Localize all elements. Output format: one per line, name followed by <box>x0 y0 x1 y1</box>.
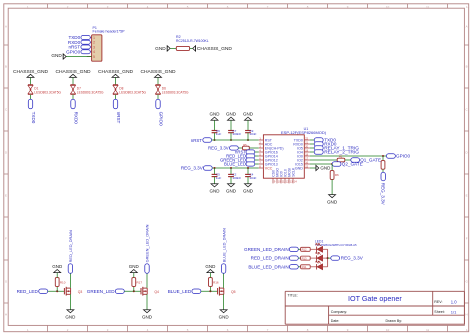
U1 bottom pin 12 IO10 <box>284 169 290 183</box>
wire CHASSIS_GND to D1 <box>30 78 32 85</box>
wire CHASSIS_GND to D6 <box>157 78 159 85</box>
svg-text:TJ-S3528UG2W8TLCCYRGB-A5: TJ-S3528UG2W8TLCCYRGB-A5 <box>315 243 357 247</box>
svg-text:ESP-12F(ESP8266MOD): ESP-12F(ESP8266MOD) <box>281 130 327 135</box>
TVS diode D8 LESD803.3CAT5G <box>113 85 147 95</box>
wire GND to C6 <box>214 120 216 130</box>
svg-text:H: H <box>5 313 7 317</box>
LED1 common anode bus <box>327 249 329 266</box>
junction at R16 <box>209 290 211 292</box>
junction on nRST line at C9 <box>247 139 249 141</box>
wire GREEN_LED_DRAIN to pin box <box>298 248 300 250</box>
svg-text:REG_3.3V: REG_3.3V <box>181 166 204 171</box>
svg-text:10nF: 10nF <box>249 176 256 180</box>
svg-text:GND: GND <box>243 111 254 116</box>
ground GND below C5 <box>210 184 221 194</box>
net flag RELAY_2_TRIG <box>314 150 359 156</box>
U1 left pin 8 VCC <box>259 165 273 170</box>
wire R2 to CHASSIS_GND <box>190 47 193 49</box>
U1 right pin 17 IO2 <box>297 157 310 162</box>
ground GND at P1 <box>51 53 66 59</box>
net flag RED_LED at U1 <box>226 154 255 159</box>
resistor R17 <box>132 278 142 287</box>
svg-text:GREEN_LED_DRAIN: GREEN_LED_DRAIN <box>145 224 150 262</box>
net flag GREEN_LED at U1 <box>220 158 255 163</box>
TVS diode D7 LESD803.3CAT5G <box>70 85 104 95</box>
LED1 pin box R12 <box>301 247 311 251</box>
net flag REG_3.3V at VCC <box>181 166 212 171</box>
U1 right pin 16 IO15 <box>295 161 310 166</box>
ground GND above C9 <box>243 111 254 120</box>
wire R16 to GND <box>209 273 211 278</box>
net flag GPIO0 <box>386 154 410 159</box>
wire C7 to nRST line <box>230 133 232 140</box>
svg-text:RC251JLR-7W100KL: RC251JLR-7W100KL <box>176 39 209 43</box>
svg-text:TITLE:: TITLE: <box>288 293 298 297</box>
wire pin box to LED element <box>310 266 316 268</box>
svg-text:TXD0: TXD0 <box>31 112 36 124</box>
net flag Q2_GATE <box>332 162 362 167</box>
net flag GREEN_LED_DRAIN at LED1 <box>244 247 298 252</box>
LED1 pin box R11 <box>301 265 311 269</box>
net flag GPIO0 at P1 <box>66 49 90 54</box>
resistor R2 RC251JLR-7W100KL <box>176 35 209 50</box>
U1 left pin 6 GPIO12 <box>259 157 278 162</box>
svg-text:GND: GND <box>205 264 216 269</box>
wire C9 to nRST line <box>247 133 249 140</box>
resistor R5 <box>243 143 250 150</box>
ground GND below Q3 <box>65 310 76 320</box>
U1 left pin 3 EN(CH-PD) <box>259 145 284 150</box>
wire GND to C9 <box>247 120 249 130</box>
svg-text:R11: R11 <box>302 265 307 269</box>
svg-text:IOT Gate opener: IOT Gate opener <box>348 294 402 303</box>
ground GND below R6 <box>327 195 338 205</box>
svg-text:10: 10 <box>386 328 390 332</box>
LED element GREEN_LED_DRAIN <box>316 244 328 253</box>
svg-text:A: A <box>466 25 468 29</box>
svg-text:BLUE_LED_DRAIN: BLUE_LED_DRAIN <box>221 228 226 262</box>
ground GND above R10 <box>52 264 63 273</box>
wire R1 to Q1_GATE <box>345 159 351 161</box>
U1 right pin 19 IO4 <box>297 149 310 154</box>
junction on nRST line at C7 <box>230 139 232 141</box>
transistor Q5 NMOS <box>218 287 236 296</box>
svg-text:RXD0: RXD0 <box>74 112 79 125</box>
svg-text:GND: GND <box>51 53 62 58</box>
svg-text:1uF: 1uF <box>216 176 221 180</box>
wire junction to R17 <box>133 286 135 291</box>
U1 bottom pin 11 IO9 <box>280 171 286 183</box>
svg-text:R1: R1 <box>339 155 343 159</box>
svg-text:GND: GND <box>65 315 76 320</box>
svg-text:GND: GND <box>129 264 140 269</box>
svg-text:A: A <box>5 25 7 29</box>
wire RED_LED to Q3 gate <box>48 290 65 292</box>
junction at Q2_GATE branch <box>331 163 333 165</box>
ground GND left of R2 <box>155 46 170 52</box>
wire Q5 drain up <box>223 273 225 288</box>
U1 left pin 5 GPIO14 <box>259 153 278 158</box>
wire VCC line to C5 <box>214 168 216 174</box>
svg-text:R16: R16 <box>213 280 219 284</box>
svg-text:RELAY_2_TRIG: RELAY_2_TRIG <box>324 150 359 156</box>
U1 left pin 4 GPIO16 <box>259 149 278 154</box>
net flag TXD0 <box>314 138 336 143</box>
svg-text:GREEN_LED: GREEN_LED <box>87 289 116 294</box>
net flag GREEN_LED_DRAIN <box>145 224 150 273</box>
net flag RXD0 below D7 <box>71 99 79 124</box>
svg-text:GND: GND <box>219 315 230 320</box>
svg-text:1.0: 1.0 <box>451 299 457 304</box>
svg-text:12: 12 <box>466 5 470 9</box>
svg-text:B: B <box>466 65 468 69</box>
wire Q3 drain up <box>69 273 71 288</box>
svg-text:GND: GND <box>226 189 237 194</box>
ground GND above C6 <box>210 111 221 120</box>
svg-text:RED_LED_DRAIN: RED_LED_DRAIN <box>251 256 289 261</box>
net flag BLUE_LED_DRAIN at LED1 <box>248 264 298 269</box>
wire U1 GND pin to ground <box>310 167 316 169</box>
wire R17 to GND <box>133 273 135 278</box>
net flag RED_LED_DRAIN at LED1 <box>251 256 299 261</box>
svg-text:GND: GND <box>226 111 237 116</box>
net flag RED_LED_DRAIN <box>68 230 73 273</box>
U1 right pin 18 IO0 <box>297 153 310 158</box>
svg-text:GND: GND <box>52 264 63 269</box>
svg-text:GND: GND <box>210 189 221 194</box>
wire U1 to RELAY_2_TRIG <box>310 151 314 153</box>
wire REG_3.3V to U1 VCC <box>212 167 259 169</box>
svg-text:Drawn By:: Drawn By: <box>386 319 403 323</box>
svg-text:D1: D1 <box>34 86 38 90</box>
svg-text:GPIO0: GPIO0 <box>396 154 410 159</box>
U1 left pin 1 RST <box>259 137 273 142</box>
net flag Q1_GATE <box>351 158 381 163</box>
junction at LED1 anode <box>327 257 329 259</box>
svg-text:C: C <box>466 108 468 112</box>
LED element BLUE_LED_DRAIN <box>316 261 328 270</box>
resistor R1 <box>337 155 345 162</box>
svg-text:REG_3.3V: REG_3.3V <box>208 146 229 151</box>
junction on nRST line at C6 <box>213 139 215 141</box>
net flag RELAY_1_TRIG <box>314 146 359 152</box>
svg-text:BLUE_LED: BLUE_LED <box>168 289 192 294</box>
net flag TXD0 below D1 <box>28 99 36 123</box>
connector P1 Female header 1*5P <box>92 26 125 61</box>
U1 bottom pin 14 SCLK <box>292 167 298 184</box>
wire D1 to net flag <box>30 95 32 100</box>
U1 bottom pin 9 CS0 <box>272 170 276 184</box>
wire junction to R3 <box>382 156 384 161</box>
wire R3 to REG_3.3V <box>382 169 384 172</box>
junction at GPIO0 branch <box>382 155 384 157</box>
wire VCC line to C2 <box>230 168 232 174</box>
wire RED_LED_DRAIN to pin box <box>298 257 300 259</box>
capacitor C5 1uF <box>212 173 222 180</box>
svg-text:R12: R12 <box>302 248 307 252</box>
op-amp U1 ESP-12F(ESP8266MOD) module body <box>263 127 326 178</box>
capacitor C2 100nF <box>228 173 241 180</box>
P1 pin 2 <box>87 41 95 45</box>
net flag REG_3.3V vertical <box>381 172 386 205</box>
svg-text:GREEN_LED_DRAIN: GREEN_LED_DRAIN <box>244 247 289 252</box>
svg-text:R10: R10 <box>60 280 66 284</box>
chassis ground CHASSIS_GND above D1 <box>13 69 49 77</box>
wire pin box to LED element <box>310 248 316 250</box>
net flag GREEN_LED <box>87 289 125 294</box>
svg-text:C: C <box>5 108 7 112</box>
wire Q4 drain up <box>146 273 148 288</box>
wire U1 to TXD0 <box>310 139 314 141</box>
svg-text:11: 11 <box>426 328 429 332</box>
capacitor C6 1uF <box>212 129 222 136</box>
wire D6 to net flag <box>157 95 159 100</box>
wire U1 IO0 to GPIO0 <box>310 155 387 157</box>
svg-text:H: H <box>466 313 468 317</box>
chassis ground CHASSIS_GND above D6 <box>140 69 176 77</box>
transistor Q4 NMOS <box>141 287 159 296</box>
wire C6 to nRST line <box>214 133 216 140</box>
wire R10 to GND <box>56 273 58 278</box>
svg-text:GND: GND <box>320 166 331 171</box>
TVS diode D1 LESD803.3CAT5G <box>28 85 62 95</box>
svg-text:GND: GND <box>295 166 303 170</box>
U1 right pin 22 TXD0 <box>294 137 310 142</box>
wire CHASSIS_GND to D8 <box>115 78 117 85</box>
U1 bottom pin 10 MISO <box>276 168 282 184</box>
wire U1 to RELAY_1_TRIG <box>310 147 314 149</box>
net flag nRST left of U1 <box>191 138 212 143</box>
svg-text:GND: GND <box>210 111 221 116</box>
resistor R10 <box>55 278 65 287</box>
svg-text:REG_3.3V: REG_3.3V <box>341 256 364 261</box>
svg-text:R17: R17 <box>137 280 143 284</box>
svg-text:Sheet:: Sheet: <box>434 310 444 314</box>
resistor R3 pull-up <box>381 161 385 170</box>
capacitor C4 10nF <box>245 173 256 180</box>
svg-text:Q5: Q5 <box>231 290 236 294</box>
wire CHASSIS_GND to D7 <box>72 78 74 85</box>
svg-text:1/1: 1/1 <box>451 309 457 314</box>
wire Q4 source down <box>146 294 148 309</box>
net flag REG_3.3V at EN <box>208 146 238 151</box>
P1 pin 1 <box>87 36 95 40</box>
ground GND above R17 <box>129 264 140 273</box>
svg-text:10: 10 <box>386 5 390 9</box>
svg-text:LESD803.3CAT5G: LESD803.3CAT5G <box>162 91 189 95</box>
svg-text:GND: GND <box>142 315 153 320</box>
svg-text:R13: R13 <box>302 256 307 260</box>
svg-text:nRST: nRST <box>116 112 121 124</box>
svg-text:4: 4 <box>93 50 95 54</box>
svg-text:RED_LED_DRAIN: RED_LED_DRAIN <box>68 230 73 262</box>
wire VCC line to C4 <box>247 168 249 174</box>
wire U1 IO15 to Q2_GATE <box>310 163 332 165</box>
svg-text:B: B <box>5 65 7 69</box>
wire pin box to LED element <box>310 257 316 259</box>
net flag RED_LED <box>17 289 48 294</box>
P1 pin 4 <box>87 50 95 54</box>
svg-text:LESD803.3CAT5G: LESD803.3CAT5G <box>77 91 104 95</box>
svg-text:D: D <box>5 151 7 155</box>
net flag nRST at U1 <box>235 150 255 155</box>
svg-text:Female header1*5P: Female header1*5P <box>93 30 126 34</box>
svg-text:REV:: REV: <box>434 300 442 304</box>
svg-text:F: F <box>5 237 7 241</box>
ground GND below Q4 <box>142 310 153 320</box>
svg-text:2: 2 <box>93 41 95 45</box>
net flag RXD0 at P1 <box>68 40 90 45</box>
svg-text:D: D <box>466 151 468 155</box>
net flag nRST below D8 <box>113 99 121 123</box>
wire U1 to RXD0 <box>310 143 314 145</box>
transistor Q3 NMOS <box>64 287 82 296</box>
svg-text:Date:: Date: <box>331 319 340 323</box>
svg-text:Q4: Q4 <box>154 290 159 294</box>
svg-text:10nF: 10nF <box>249 132 256 136</box>
net flag nRST at P1 <box>68 45 90 50</box>
svg-text:CHASSIS_GND: CHASSIS_GND <box>197 46 233 52</box>
svg-text:BLUE_LED_DRAIN: BLUE_LED_DRAIN <box>248 264 288 269</box>
svg-text:Q2_GATE: Q2_GATE <box>342 162 363 167</box>
svg-text:GND: GND <box>327 200 338 205</box>
junction at R17 <box>133 290 135 292</box>
wire C5 to GND <box>214 177 216 184</box>
wire GND to C7 <box>230 120 232 130</box>
svg-text:LESD803.3CAT5G: LESD803.3CAT5G <box>34 91 61 95</box>
svg-text:BLUE_LED: BLUE_LED <box>224 162 246 167</box>
U1 left pin 7 GPIO13 <box>259 161 278 166</box>
svg-text:VCC: VCC <box>265 166 273 170</box>
svg-text:100nF: 100nF <box>232 132 241 136</box>
U1 right pin 15 GND <box>295 165 310 170</box>
svg-text:R6: R6 <box>335 173 339 177</box>
svg-text:1: 1 <box>93 36 95 40</box>
LED element RED_LED_DRAIN <box>316 252 328 261</box>
svg-text:D8: D8 <box>119 86 123 90</box>
TVS diode D6 LESD803.3CAT5G <box>155 85 189 95</box>
svg-text:LESD803.3CAT5G: LESD803.3CAT5G <box>119 91 146 95</box>
junction on VCC line at C5 <box>213 167 215 169</box>
svg-text:F: F <box>466 237 468 241</box>
svg-text:RED_LED: RED_LED <box>17 289 39 294</box>
net flag BLUE_LED <box>168 289 201 294</box>
svg-text:5: 5 <box>93 55 95 59</box>
wire D8 to net flag <box>115 95 117 100</box>
net flag BLUE_LED at U1 <box>224 162 255 167</box>
wire nRST to U1 <box>255 151 259 153</box>
title block <box>285 291 464 324</box>
net flag RXD0 <box>314 142 337 147</box>
ground GND below Q5 <box>219 310 230 320</box>
wire RED_LED to U1 <box>255 155 259 157</box>
U1 left pin 2 ADC <box>259 141 273 146</box>
ground GND below C4 <box>243 184 254 194</box>
junction at R10 <box>56 290 58 292</box>
junction on VCC line at C2 <box>230 167 232 169</box>
svg-text:3: 3 <box>93 45 95 49</box>
wire anode to REG_3.3V <box>328 257 331 259</box>
wire R6 to GND <box>331 179 333 194</box>
svg-text:GPIO0: GPIO0 <box>66 49 80 54</box>
wire flag to R5 <box>238 147 242 149</box>
P1 pin 5 <box>87 55 95 59</box>
svg-text:nRST: nRST <box>191 138 203 143</box>
LED1 pin box R13 <box>301 256 311 260</box>
wire U1 IO2 to R1 <box>310 159 337 161</box>
svg-text:GPIO0: GPIO0 <box>159 112 164 126</box>
chassis ground CHASSIS_GND above D7 <box>55 69 91 77</box>
wire P1 pin5 to GND <box>66 56 92 58</box>
LED LED1 TJ-S3528UG2W8TLCCYRGB-A5 labels <box>315 239 357 246</box>
svg-text:1uF: 1uF <box>216 132 221 136</box>
wire junction to R16 <box>209 286 211 291</box>
net flag TXD0 at P1 <box>68 35 90 40</box>
wire R5 to U1 EN <box>249 147 258 149</box>
svg-text:R5: R5 <box>243 143 247 147</box>
wire BLUE_LED to U1 <box>255 163 259 165</box>
chassis ground CHASSIS_GND above D8 <box>98 69 134 77</box>
svg-text:SCLK: SCLK <box>292 167 296 177</box>
ground GND above R16 <box>205 264 216 273</box>
wire C2 to GND <box>230 177 232 184</box>
svg-text:E: E <box>5 194 7 198</box>
wire Q5 source down <box>223 294 225 309</box>
svg-text:REG_3.3V: REG_3.3V <box>381 183 386 206</box>
resistor R6 <box>330 171 339 180</box>
wire BLUE_LED_DRAIN to pin box <box>298 266 300 268</box>
wire C4 to GND <box>247 177 249 184</box>
net flag GPIO0 below D6 <box>156 99 164 126</box>
wire junction to R10 <box>56 286 58 291</box>
svg-text:D7: D7 <box>77 86 81 90</box>
U1 bottom pin 13 MOSI <box>288 168 294 184</box>
net flag BLUE_LED_DRAIN <box>221 228 226 273</box>
wire Q3 source down <box>69 294 71 309</box>
wire D7 to net flag <box>72 95 74 100</box>
svg-text:GND: GND <box>243 189 254 194</box>
ground GND right of U1 <box>316 165 331 171</box>
net flag REG_3.3V at LED1 <box>331 256 364 261</box>
svg-text:100nF: 100nF <box>232 176 241 180</box>
svg-text:Company:: Company: <box>331 310 347 314</box>
ground GND below C2 <box>226 184 237 194</box>
capacitor C9 10nF <box>245 129 256 136</box>
U1 right pin 20 IO5 <box>297 145 310 150</box>
wire nRST to U1 RST <box>212 139 259 141</box>
junction on VCC line at C4 <box>247 167 249 169</box>
wire GND to R2 <box>170 47 176 49</box>
U1 right pin 21 RXD0 <box>293 141 309 146</box>
svg-text:Q1_GATE: Q1_GATE <box>360 158 381 163</box>
wire GREEN_LED to U1 <box>255 159 259 161</box>
wire BLUE_LED to Q5 gate <box>201 290 218 292</box>
ground GND above C7 <box>226 111 237 120</box>
svg-text:11: 11 <box>426 5 429 9</box>
wire GREEN_LED to Q4 gate <box>124 290 141 292</box>
svg-text:E: E <box>466 194 468 198</box>
svg-text:GND: GND <box>155 46 166 51</box>
wire junction down to R6 <box>331 164 333 171</box>
resistor R16 <box>209 278 219 287</box>
P1 pin 3 <box>87 45 95 49</box>
svg-text:Q3: Q3 <box>78 290 83 294</box>
chassis ground CHASSIS_GND right of R2 <box>193 46 233 53</box>
capacitor C7 100nF <box>228 129 241 136</box>
svg-text:D6: D6 <box>162 86 166 90</box>
svg-text:12: 12 <box>466 328 470 332</box>
